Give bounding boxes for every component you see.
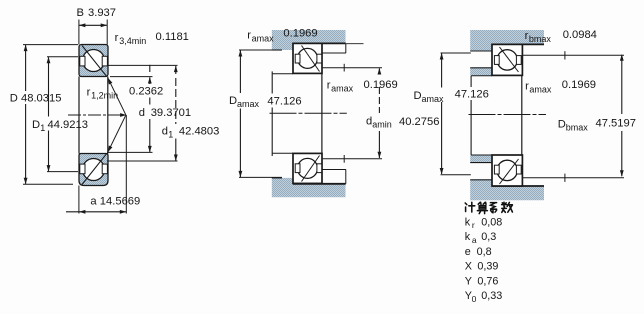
view 3 ring section bottom xyxy=(492,155,522,186)
svg-text:0,33: 0,33 xyxy=(481,290,502,302)
view 3 shaft shoulder lower-left (blue) xyxy=(470,155,492,163)
svg-text:0,3: 0,3 xyxy=(481,231,496,243)
svg-text:D: D xyxy=(558,119,566,131)
svg-text:D: D xyxy=(229,95,237,107)
svg-text:amax: amax xyxy=(331,84,354,94)
svg-text:0.2362: 0.2362 xyxy=(129,86,163,98)
table heading 计算系数 (drawn strokes) xyxy=(465,202,512,213)
dimension d amin extension lines + ticks xyxy=(323,67,382,69)
view 2 housing shoulder bottom (blue) xyxy=(272,178,346,197)
dimension d1 extension lines xyxy=(108,64,178,66)
svg-text:39.3701: 39.3701 xyxy=(151,107,191,119)
svg-text:D: D xyxy=(414,90,422,102)
svg-text:1: 1 xyxy=(168,130,173,140)
svg-text:0.1969: 0.1969 xyxy=(283,28,317,40)
dimension d1 line (42.4803) xyxy=(175,66,177,74)
dimension Damax extension lines (view 2) xyxy=(239,49,282,51)
svg-text:a: a xyxy=(90,196,97,208)
svg-text:1: 1 xyxy=(40,123,45,133)
svg-text:amax: amax xyxy=(237,99,260,109)
svg-text:e: e xyxy=(465,246,471,258)
view 2 top contact line xyxy=(302,46,320,72)
svg-text:0.0984: 0.0984 xyxy=(563,29,597,41)
svg-text:0,76: 0,76 xyxy=(477,275,498,287)
view 2 right housing step bottom xyxy=(322,169,346,171)
svg-text:D: D xyxy=(10,93,18,105)
view 3 bottom contact line xyxy=(500,159,519,184)
dimension D bmax line xyxy=(621,55,623,114)
dimension d amin line (view 2) xyxy=(378,68,380,73)
svg-text:3,4min: 3,4min xyxy=(119,36,146,46)
svg-text:Y: Y xyxy=(465,275,472,287)
dimension B line with arrows xyxy=(79,24,107,26)
svg-text:47.126: 47.126 xyxy=(267,96,301,108)
view 2 housing shoulder top (blue) xyxy=(272,30,346,50)
svg-text:0,8: 0,8 xyxy=(477,246,492,258)
svg-text:0.1181: 0.1181 xyxy=(156,31,189,43)
svg-text:amax: amax xyxy=(529,85,552,95)
view 2 shaft seat edge xyxy=(271,71,273,93)
view 1 top raceway notch left xyxy=(80,56,85,66)
view 3 housing top band + step (blue) xyxy=(470,30,544,51)
view 3 bore right edge xyxy=(521,75,523,155)
dimension D extension lines xyxy=(23,44,78,46)
dimension B extension lines xyxy=(78,20,80,45)
svg-text:k: k xyxy=(465,216,471,228)
svg-text:14.5669: 14.5669 xyxy=(100,196,140,208)
svg-text:k: k xyxy=(465,231,471,243)
svg-text:0,39: 0,39 xyxy=(477,261,498,273)
bearing view 1 ring section bottom (blue) xyxy=(79,154,108,186)
svg-text:0: 0 xyxy=(472,294,477,304)
view 1 top contact angle line xyxy=(82,46,107,77)
view 2 bore right edge xyxy=(321,73,323,153)
view 1 bottom raceway notch right xyxy=(102,164,107,174)
view 1 bottom contact extension xyxy=(108,115,126,152)
view 3 housing bottom band + step (blue) xyxy=(470,180,544,201)
svg-text:X: X xyxy=(465,261,472,273)
view 1 bore edge right xyxy=(107,77,109,154)
svg-text:0.1969: 0.1969 xyxy=(364,79,398,91)
svg-text:r: r xyxy=(115,32,119,44)
svg-text:3.937: 3.937 xyxy=(88,7,116,19)
svg-text:amax: amax xyxy=(252,34,275,44)
dimension Damax line (view 3) xyxy=(441,53,443,87)
view 2 bottom contact line xyxy=(302,156,320,182)
dimension a extension left (bearing face) xyxy=(78,186,80,214)
view 1 top ball xyxy=(83,50,105,72)
view 1 load centre vertical line xyxy=(125,115,127,214)
svg-text:0.1969: 0.1969 xyxy=(562,79,596,91)
view 1 contact line extension to load centre xyxy=(108,78,126,115)
svg-text:bmax: bmax xyxy=(566,123,589,133)
view 1 bottom raceway notch left xyxy=(80,164,85,174)
svg-text:amin: amin xyxy=(372,120,392,130)
svg-text:42.4803: 42.4803 xyxy=(179,126,219,138)
svg-text:40.2756: 40.2756 xyxy=(399,116,439,128)
view 1 bottom ball xyxy=(83,159,105,181)
svg-text:1,2min: 1,2min xyxy=(91,91,118,101)
view 2 ring section top xyxy=(293,43,322,73)
svg-text:B: B xyxy=(77,7,84,19)
dimension Damax extension lines (view 3) xyxy=(441,52,471,54)
view 3 ring section top xyxy=(492,44,522,75)
dimension D bmax extension lines + ticks xyxy=(523,54,624,56)
view 1 bore edge left xyxy=(78,77,80,154)
view 2 axis centreline xyxy=(270,112,347,114)
svg-text:d: d xyxy=(139,107,145,119)
svg-text:D: D xyxy=(32,119,40,131)
view 3 shaft shoulder upper-left (blue) xyxy=(470,68,492,76)
view 2 right housing step top xyxy=(322,52,346,54)
view 1 bearing axis centreline xyxy=(68,114,123,116)
view 2 ring section bottom xyxy=(293,153,322,183)
view 3 axis centreline xyxy=(469,114,547,116)
svg-text:r: r xyxy=(87,87,91,99)
dimension D line (48.0315) xyxy=(25,45,27,91)
svg-text:r: r xyxy=(472,220,475,230)
svg-text:44.9213: 44.9213 xyxy=(48,119,88,131)
view 2 left extension lines xyxy=(272,73,293,75)
bearing view 1 outer+inner ring section top (blue) xyxy=(79,45,108,77)
view 1 top raceway notch right xyxy=(102,56,107,66)
dimension d line (39.3701) xyxy=(149,65,151,72)
svg-text:47.5197: 47.5197 xyxy=(596,118,636,130)
dimension Damax line (view 2) xyxy=(239,50,241,93)
svg-text:47.126: 47.126 xyxy=(455,89,489,101)
svg-text:0,08: 0,08 xyxy=(481,216,502,228)
dimension d extension line xyxy=(107,151,153,153)
dimension D1 line (44.9213) xyxy=(48,57,50,116)
svg-text:amax: amax xyxy=(422,94,445,104)
svg-text:d: d xyxy=(162,126,168,138)
svg-text:bmax: bmax xyxy=(529,34,552,44)
svg-text:a: a xyxy=(472,235,477,245)
dimension a line (14.5669) xyxy=(66,211,126,213)
view 3 top contact line xyxy=(500,47,519,72)
view 3 shaft seat edge xyxy=(470,76,472,87)
dimension D1 extension lines xyxy=(47,56,78,58)
view 1 bottom contact angle line xyxy=(82,154,107,185)
svg-text:48.0315: 48.0315 xyxy=(21,93,61,105)
